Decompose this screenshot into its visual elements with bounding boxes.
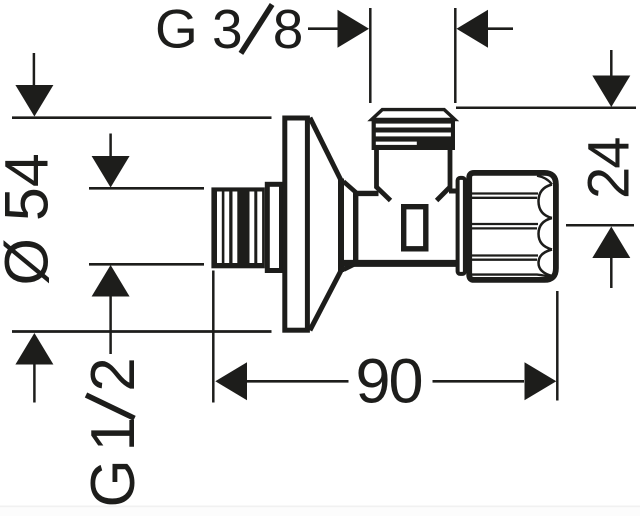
body top edge <box>353 191 379 196</box>
extension line G3/8 right <box>454 8 457 103</box>
svg-text:2: 2 <box>79 357 148 391</box>
flange plate <box>285 118 308 330</box>
svg-text:3: 3 <box>212 0 243 60</box>
neck right edge <box>448 150 453 189</box>
neck left edge <box>374 150 379 189</box>
cone chamfer bottom <box>344 263 358 270</box>
bottom page edge <box>0 506 640 508</box>
dimension G12 line bottom <box>89 263 204 266</box>
svg-text:1: 1 <box>79 417 148 451</box>
svg-text:G: G <box>79 459 148 507</box>
dimension 24 arrow down <box>592 76 630 108</box>
knob flute petal 3 <box>539 250 553 277</box>
dimension 90 arrow right <box>525 362 557 400</box>
knob groove 2 lower line <box>472 227 538 229</box>
cone top edge <box>310 118 341 181</box>
dimension G12 arrow up <box>92 265 130 297</box>
knob groove 3 upper line <box>472 254 539 256</box>
dimension G3/8 tail line left <box>308 27 338 30</box>
dimension G3/8 arrow right <box>457 10 489 48</box>
neck shoulder left <box>377 187 391 201</box>
dimension G3/8 arrow left <box>338 10 370 48</box>
knob groove 1 upper line <box>472 192 539 194</box>
cap top face <box>372 110 455 120</box>
knob groove 3 lower line <box>472 259 538 261</box>
label G 3/8 <box>155 0 303 60</box>
body center plate <box>404 207 426 249</box>
dimension D54 arrow up <box>15 333 53 365</box>
svg-text:90: 90 <box>356 347 422 417</box>
extension line right middle <box>566 224 634 227</box>
cone chamfer top <box>344 182 357 193</box>
extension line 90 left <box>212 271 215 403</box>
dimension 24 arrow down stem <box>610 50 613 77</box>
collar <box>267 184 281 270</box>
svg-text:8: 8 <box>273 0 304 60</box>
knob bottom inner line <box>472 275 550 277</box>
extension line flange top <box>12 116 272 119</box>
cone bottom edge <box>310 271 341 331</box>
dimension 24 arrow up stem <box>610 258 613 288</box>
dimension 90 arrow left <box>215 362 247 400</box>
dimension D54 arrow down <box>15 85 53 117</box>
body left edge <box>353 191 358 263</box>
dimension 24 arrow up <box>592 227 630 259</box>
dimension 90 line left <box>247 380 349 383</box>
extension line flange bottom <box>12 330 272 333</box>
cap thread block <box>372 118 455 151</box>
dimension D54 arrow up stem <box>33 365 36 403</box>
dimension D54 arrow down stem <box>33 53 36 86</box>
svg-text:G: G <box>155 0 198 60</box>
knob outline <box>469 173 556 280</box>
svg-text:Ø 54: Ø 54 <box>0 153 60 285</box>
label G 1/2 <box>79 357 148 507</box>
body top stub right <box>449 189 458 194</box>
knob flute petal 1 <box>539 185 553 219</box>
extension line top right <box>456 107 636 110</box>
knob groove 1 lower line <box>472 197 538 199</box>
cone base bar <box>338 179 344 273</box>
dimension G12 line top <box>89 187 204 190</box>
dimension G3/8 tail line right <box>488 27 513 30</box>
knob flute petal 2 <box>539 218 553 250</box>
knob top flute arc <box>537 176 552 185</box>
svg-text:24: 24 <box>577 138 640 199</box>
dimension 90 line right <box>433 380 525 383</box>
dimension G12 arrow down <box>92 156 130 188</box>
ring <box>458 178 465 274</box>
knob groove 2 upper line <box>472 223 539 225</box>
extension line 90 right <box>556 291 559 401</box>
thread G12 block <box>211 187 264 268</box>
extension line G3/8 left <box>369 8 372 103</box>
body bottom edge <box>341 260 463 267</box>
neck shoulder right <box>437 187 450 201</box>
dimension G12 arrow down stem <box>109 134 112 157</box>
dimension G12 arrow up stem <box>109 297 112 355</box>
